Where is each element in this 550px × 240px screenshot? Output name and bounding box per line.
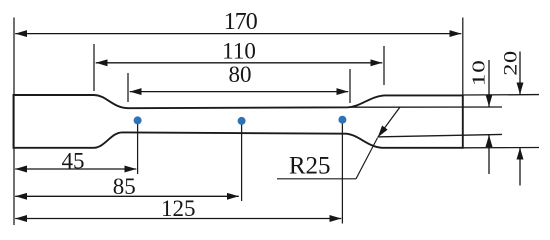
svg-text:80: 80 [229, 62, 252, 87]
svg-text:170: 170 [224, 9, 258, 35]
svg-text:125: 125 [161, 196, 196, 221]
svg-text:45: 45 [62, 149, 85, 174]
svg-text:10: 10 [468, 59, 488, 86]
svg-text:20: 20 [500, 50, 521, 76]
svg-text:110: 110 [222, 39, 256, 64]
svg-text:R25: R25 [289, 153, 331, 180]
svg-text:85: 85 [113, 174, 136, 199]
